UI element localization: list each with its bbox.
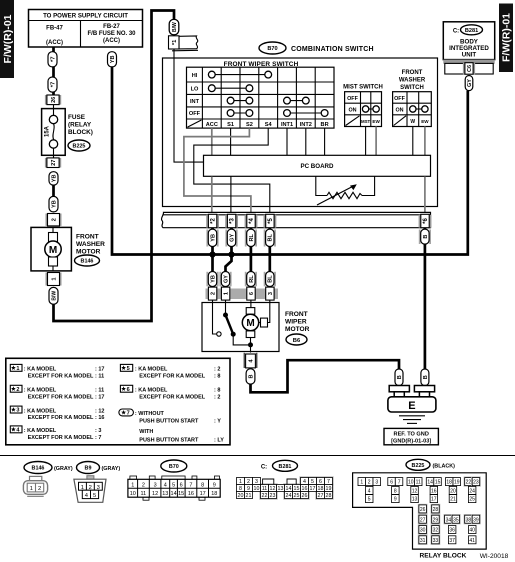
svg-text:2: 2 — [89, 485, 92, 491]
svg-text:YB: YB — [210, 275, 216, 283]
svg-text:7: 7 — [127, 411, 130, 417]
svg-text:: 8: : 8 — [214, 374, 220, 380]
svg-text:9: 9 — [213, 482, 216, 488]
page banner right F/W(R)-01 — [499, 4, 513, 73]
svg-text:INT2: INT2 — [300, 122, 312, 128]
svg-text:11: 11 — [416, 480, 421, 486]
svg-text:10: 10 — [254, 486, 260, 492]
svg-text:EXCEPT FOR KA MODEL: EXCEPT FOR KA MODEL — [28, 394, 94, 400]
connector strip under body integrated unit — [443, 60, 494, 75]
svg-text:25: 25 — [294, 493, 300, 499]
svg-text:21: 21 — [246, 493, 252, 499]
svg-text:40: 40 — [469, 528, 475, 534]
svg-text:FRONT: FRONT — [402, 70, 423, 76]
svg-text:*6: *6 — [423, 218, 429, 224]
svg-text:3: 3 — [375, 480, 378, 486]
svg-text:S1: S1 — [227, 122, 234, 128]
svg-text:16: 16 — [431, 489, 437, 495]
wire INT2 to PC board — [305, 128, 307, 155]
wiper motor internal park switch — [213, 300, 251, 345]
svg-text:EXCEPT FOR KA MODEL: EXCEPT FOR KA MODEL — [28, 415, 94, 421]
svg-text:3: 3 — [268, 292, 274, 295]
note *3 — [10, 406, 104, 421]
svg-text:: WITHOUT: : WITHOUT — [135, 411, 165, 417]
svg-text:W: W — [410, 119, 415, 125]
svg-text:41: 41 — [469, 538, 475, 544]
capsule YB power feed FB-27 — [108, 52, 117, 67]
wire PC board to pin *3 — [230, 177, 232, 215]
capsule BL lower — [266, 272, 274, 287]
svg-text:: 11: : 11 — [95, 388, 104, 394]
variable resistor on PC board — [316, 177, 375, 206]
svg-text:EXCEPT FOR KA MODEL: EXCEPT FOR KA MODEL — [28, 435, 94, 441]
junction dot bus GY tap — [228, 251, 234, 257]
svg-text:EXCEPT FOR KA MODEL: EXCEPT FOR KA MODEL — [28, 374, 94, 380]
svg-text:: 17: : 17 — [95, 394, 104, 400]
svg-text:RELAY BLOCK: RELAY BLOCK — [420, 553, 467, 560]
svg-text:EXCEPT FOR KA MODEL: EXCEPT FOR KA MODEL — [139, 374, 205, 380]
wire B bar pin *6 to ground — [424, 228, 427, 370]
svg-text:27: 27 — [51, 160, 57, 166]
svg-text:5: 5 — [172, 482, 175, 488]
pin *4 — [245, 214, 258, 227]
svg-text:*5: *5 — [268, 218, 274, 224]
svg-text:27: 27 — [318, 493, 324, 499]
box TO POWER SUPPLY CIRCUIT — [29, 10, 143, 48]
svg-text:12: 12 — [412, 489, 418, 495]
svg-text:B: B — [423, 375, 429, 379]
ref to gnd box — [384, 428, 438, 444]
capsule GY lower — [221, 272, 229, 287]
svg-text:11: 11 — [141, 491, 147, 497]
capsule YB lower — [208, 272, 216, 287]
svg-text:B146: B146 — [81, 259, 94, 265]
pin 27 relay block — [45, 155, 61, 167]
svg-text:B/W: B/W — [51, 291, 57, 301]
pin *5 — [264, 214, 277, 227]
svg-text:B281: B281 — [465, 28, 478, 34]
svg-text:COMBINATION SWITCH: COMBINATION SWITCH — [291, 46, 374, 53]
svg-text:2: 2 — [38, 486, 41, 492]
wire W to PC board — [412, 127, 414, 156]
capsule B/W washer motor ground — [49, 287, 58, 304]
svg-text:BLOCK): BLOCK) — [68, 129, 93, 136]
svg-text:F/B FUSE NO. 30: F/B FUSE NO. 30 — [87, 31, 136, 37]
svg-text:B146: B146 — [32, 466, 45, 472]
svg-text:*3: *3 — [230, 218, 236, 224]
contacts INT row S1-S2 and INT1-INT2 — [227, 97, 309, 104]
pin 4 wiper motor — [244, 353, 257, 368]
svg-text:M: M — [246, 318, 254, 329]
wire *1 to PC board — [174, 49, 204, 162]
svg-text:GY: GY — [229, 233, 235, 241]
svg-text:3: 3 — [16, 408, 19, 414]
wire FB-47 feed down to fuse — [52, 47, 55, 112]
svg-text:6: 6 — [180, 482, 183, 488]
wire BL bar to motor pin 3 — [268, 228, 271, 289]
svg-text:E: E — [408, 400, 415, 412]
svg-text:: 2: : 2 — [214, 394, 220, 400]
svg-text:B70: B70 — [267, 46, 277, 52]
svg-text:: 2: : 2 — [214, 367, 220, 373]
svg-text:WIPER: WIPER — [285, 319, 307, 326]
pin 2 washer motor — [46, 214, 62, 226]
svg-text:12: 12 — [152, 491, 158, 497]
wire INT1 to PC board — [286, 128, 288, 155]
svg-text:8: 8 — [394, 489, 397, 495]
svg-text:(GRAY): (GRAY) — [102, 466, 121, 472]
svg-text:GY: GY — [223, 275, 229, 283]
svg-text:6: 6 — [249, 292, 255, 295]
svg-text:13: 13 — [412, 497, 418, 503]
svg-text:: Y: : Y — [214, 418, 221, 424]
svg-text:31: 31 — [420, 538, 426, 544]
svg-text:19: 19 — [326, 486, 332, 492]
svg-text:3: 3 — [97, 485, 100, 491]
svg-text:YB: YB — [210, 234, 216, 242]
connector bar B70 strip — [161, 212, 430, 227]
svg-text:OFF: OFF — [347, 96, 358, 102]
node B281 body integrated unit — [443, 22, 494, 60]
svg-text:17: 17 — [310, 486, 316, 492]
svg-text:: KA MODEL: : KA MODEL — [24, 388, 57, 394]
svg-text:39: 39 — [473, 517, 479, 523]
svg-text:PC BOARD: PC BOARD — [300, 163, 334, 170]
svg-text:WASHER: WASHER — [399, 78, 426, 84]
svg-text:2: 2 — [142, 482, 145, 488]
capsule *7 lower — [48, 77, 57, 92]
svg-text:MOTOR: MOTOR — [285, 326, 310, 333]
svg-text:21: 21 — [450, 497, 456, 503]
svg-text:MIST SWITCH: MIST SWITCH — [343, 85, 383, 91]
wire S2 elbow to pin *4 — [184, 128, 251, 214]
svg-text:WASHER: WASHER — [76, 241, 105, 248]
capsule B ground right — [421, 369, 429, 386]
wire GY capsule from body integrated unit — [465, 76, 473, 91]
svg-text:BL: BL — [268, 233, 274, 241]
svg-text:*4: *4 — [249, 218, 255, 224]
page banner left F/W(R)-01 — [0, 0, 14, 78]
wire mist EW to PC board — [375, 127, 377, 156]
motor connector strip — [206, 289, 279, 300]
front washer switch table — [393, 70, 432, 127]
svg-text:SWITCH: SWITCH — [400, 85, 424, 91]
wire S3 elbow to pin *5 — [194, 128, 270, 214]
svg-text:18: 18 — [446, 480, 452, 486]
svg-text:9: 9 — [394, 497, 397, 503]
pin 6 wiper motor — [247, 287, 255, 300]
svg-text:1: 1 — [224, 292, 230, 295]
svg-text:YB: YB — [110, 55, 116, 63]
svg-text:*7: *7 — [51, 57, 57, 62]
svg-text:1: 1 — [360, 480, 363, 486]
wiper motor M armature — [242, 300, 269, 353]
svg-text:7: 7 — [327, 479, 330, 485]
svg-text:RL: RL — [249, 275, 255, 283]
ribbon continuation flag — [172, 36, 198, 51]
svg-text:: KA MODEL: : KA MODEL — [24, 367, 57, 373]
svg-text:B: B — [397, 375, 403, 379]
svg-text:LO: LO — [191, 87, 199, 93]
svg-text:14: 14 — [286, 486, 292, 492]
svg-text:16: 16 — [302, 486, 308, 492]
svg-text:RL: RL — [249, 233, 255, 241]
svg-text:1: 1 — [81, 485, 84, 491]
note *1 — [10, 364, 104, 379]
svg-text:27: 27 — [420, 517, 426, 523]
svg-text:12: 12 — [270, 486, 276, 492]
svg-text:15: 15 — [178, 491, 184, 497]
mist switch table — [343, 85, 383, 127]
svg-text:: KA MODEL: : KA MODEL — [24, 428, 57, 434]
svg-text:(RELAY: (RELAY — [68, 122, 92, 129]
front washer motor B146 — [31, 227, 105, 271]
svg-text:10: 10 — [130, 491, 136, 497]
svg-text:B: B — [423, 235, 429, 239]
pin 1 wiper motor — [221, 287, 229, 300]
svg-text:S2: S2 — [246, 122, 253, 128]
svg-text:1: 1 — [30, 486, 33, 492]
wire PC board to pin *2 — [211, 177, 213, 215]
svg-text:EW: EW — [372, 119, 380, 124]
svg-text:REF. TO GND: REF. TO GND — [394, 431, 429, 437]
svg-text:PUSH BUTTON START: PUSH BUTTON START — [139, 438, 199, 444]
svg-text:20: 20 — [450, 489, 456, 495]
wire YB bar to motor pin 2 — [211, 228, 214, 289]
capsule B ground left — [395, 369, 403, 386]
svg-text:C:: C: — [261, 464, 267, 470]
svg-text:19: 19 — [454, 480, 460, 486]
svg-text:13: 13 — [278, 486, 284, 492]
svg-text:2: 2 — [211, 292, 217, 295]
connector B9 (GRAY) — [74, 462, 120, 503]
svg-text:14: 14 — [427, 480, 433, 486]
svg-text:BL: BL — [268, 275, 274, 283]
svg-text:ON: ON — [395, 108, 403, 114]
svg-text:WI-20018: WI-20018 — [480, 553, 509, 560]
svg-text:1: 1 — [239, 479, 242, 485]
svg-text:B281: B281 — [279, 464, 292, 470]
svg-text:FB-27: FB-27 — [103, 24, 120, 30]
capsule RL upper — [247, 229, 255, 246]
pin *3 — [225, 214, 238, 227]
svg-text:: KA MODEL: : KA MODEL — [135, 388, 168, 394]
svg-text:PUSH BUTTON START: PUSH BUTTON START — [139, 418, 199, 424]
svg-text:28: 28 — [433, 507, 439, 513]
svg-text:: 17: : 17 — [95, 367, 104, 373]
pin *2 — [206, 214, 219, 227]
svg-text:33: 33 — [433, 538, 439, 544]
pin 2 wiper motor — [208, 287, 216, 300]
svg-text:C:: C: — [453, 28, 459, 34]
wire washer motor ground to combination switch — [54, 11, 175, 322]
svg-text:26: 26 — [302, 493, 308, 499]
svg-text:B225: B225 — [73, 144, 86, 150]
svg-text:2: 2 — [368, 480, 371, 486]
note *7 — [119, 409, 224, 444]
svg-text:20: 20 — [238, 493, 244, 499]
svg-text:36: 36 — [449, 528, 455, 534]
wire wiper motor ground to ground terminal — [251, 360, 400, 392]
svg-text:15: 15 — [294, 486, 300, 492]
svg-text:28: 28 — [326, 493, 332, 499]
capsule B wiper motor ground — [246, 369, 255, 384]
svg-text:8: 8 — [201, 482, 204, 488]
svg-text:4: 4 — [368, 489, 371, 495]
note *6 — [120, 385, 220, 400]
svg-text:2: 2 — [247, 479, 250, 485]
wire washer EW to PC board — [424, 127, 426, 156]
svg-text:B/W: B/W — [172, 22, 178, 32]
svg-text:5: 5 — [127, 366, 130, 372]
svg-text:B6: B6 — [293, 338, 301, 344]
svg-text:2: 2 — [52, 218, 58, 221]
svg-text:(ACC): (ACC) — [103, 38, 120, 44]
svg-text:WITH: WITH — [139, 429, 153, 435]
front wiper switch table — [187, 61, 335, 128]
separator line bottom section — [0, 455, 515, 457]
svg-text:23: 23 — [473, 480, 479, 486]
svg-text:B: B — [248, 374, 254, 378]
svg-text:(GRAY): (GRAY) — [54, 466, 73, 472]
svg-text:18: 18 — [211, 491, 217, 497]
svg-text:EW: EW — [421, 119, 429, 124]
svg-text:B70: B70 — [169, 464, 179, 470]
svg-text:7: 7 — [398, 480, 401, 486]
pc board U1 — [204, 155, 431, 176]
capsule GY upper — [227, 229, 235, 246]
svg-text:26: 26 — [420, 507, 426, 513]
svg-text:6: 6 — [390, 480, 393, 486]
wire GY bar to motor pin 1 with jog — [226, 228, 232, 289]
capsule RL lower — [247, 272, 255, 287]
connector B225 relay block pinout — [353, 459, 509, 560]
svg-text:3: 3 — [255, 479, 258, 485]
ground terminal E — [388, 386, 436, 413]
svg-text:ON: ON — [348, 108, 356, 114]
svg-text:: 8: : 8 — [214, 388, 220, 394]
svg-text:: LY: : LY — [214, 438, 224, 444]
svg-text:*7: *7 — [51, 82, 57, 87]
svg-text:ACC: ACC — [206, 122, 218, 128]
svg-text:F/W(R)-01: F/W(R)-01 — [2, 14, 14, 63]
front wiper motor B6 box — [202, 303, 310, 352]
svg-text:FRONT: FRONT — [76, 234, 99, 241]
svg-text:11: 11 — [262, 486, 268, 492]
contacts LO row ACC to S2 — [208, 85, 252, 92]
svg-text:1: 1 — [16, 366, 19, 372]
svg-text:FB-47: FB-47 — [46, 26, 63, 32]
svg-text:TO POWER SUPPLY CIRCUIT: TO POWER SUPPLY CIRCUIT — [43, 13, 128, 20]
svg-text:38: 38 — [466, 517, 472, 523]
capsule B/W combination switch side — [169, 19, 179, 34]
gray shading beside wire capsules — [206, 230, 431, 287]
svg-text:22: 22 — [466, 480, 472, 486]
svg-text:OFF: OFF — [189, 111, 201, 117]
svg-text:18: 18 — [318, 486, 324, 492]
svg-text:5: 5 — [93, 493, 96, 499]
svg-text:: 3: : 3 — [95, 428, 101, 434]
capsule *7 upper — [48, 52, 57, 67]
svg-text:OFF: OFF — [394, 96, 405, 102]
svg-text:: 16: : 16 — [95, 415, 104, 421]
svg-text:BR: BR — [321, 122, 329, 128]
combination switch B70 box — [163, 42, 438, 207]
wire to washer motor — [52, 185, 55, 196]
pin 26 relay block — [45, 95, 61, 105]
svg-text:17: 17 — [431, 497, 437, 503]
svg-text:(BLACK): (BLACK) — [433, 463, 456, 469]
svg-text:17: 17 — [200, 491, 206, 497]
svg-text:GY: GY — [467, 79, 473, 87]
capsule YB washer motor side — [49, 196, 58, 212]
capsule BL upper — [266, 229, 274, 246]
svg-text:9: 9 — [247, 486, 250, 492]
svg-text:26: 26 — [51, 97, 57, 103]
pin 3 wiper motor — [266, 287, 274, 300]
svg-text:F/W(R)-01: F/W(R)-01 — [501, 13, 513, 62]
svg-text:2: 2 — [16, 387, 19, 393]
svg-text:INT: INT — [190, 99, 200, 105]
wire BR to PC board — [324, 128, 326, 155]
ground symbol hatch — [399, 416, 425, 424]
contacts HI row ACC to S3 — [208, 71, 271, 78]
svg-text:: 11: : 11 — [95, 374, 104, 380]
note *4 — [10, 426, 101, 441]
svg-text:14: 14 — [171, 491, 177, 497]
svg-text:5: 5 — [311, 479, 314, 485]
svg-text:M: M — [49, 245, 57, 256]
notes legend box — [6, 358, 230, 445]
svg-text:: KA MODEL: : KA MODEL — [135, 367, 168, 373]
svg-text:24: 24 — [286, 493, 292, 499]
svg-text:B9: B9 — [85, 466, 92, 472]
svg-text:1: 1 — [131, 482, 134, 488]
svg-text:34: 34 — [446, 517, 452, 523]
fuse 15A (relay block) B225 — [42, 109, 93, 156]
svg-text:7: 7 — [189, 482, 192, 488]
wire RL bar to motor pin 6 — [250, 228, 253, 289]
svg-text:3: 3 — [154, 482, 157, 488]
svg-text:8: 8 — [239, 486, 242, 492]
svg-text:32: 32 — [433, 528, 439, 534]
svg-text:6: 6 — [127, 387, 130, 393]
capsule YB fuse side — [49, 172, 58, 185]
svg-text:25: 25 — [469, 497, 475, 503]
svg-text:B225: B225 — [412, 463, 425, 469]
wire PC board to pin *6 — [424, 177, 426, 215]
svg-text:*1: *1 — [172, 39, 178, 45]
svg-text:37: 37 — [449, 538, 455, 544]
svg-text:23: 23 — [270, 493, 276, 499]
svg-text:FUSE: FUSE — [68, 114, 86, 121]
svg-text:FRONT: FRONT — [285, 311, 308, 318]
svg-text:[GND(R)-01-03]: [GND(R)-01-03] — [391, 438, 431, 444]
svg-text:: KA MODEL: : KA MODEL — [24, 408, 57, 414]
svg-text:(ACC): (ACC) — [46, 40, 63, 46]
svg-text:24: 24 — [469, 489, 475, 495]
svg-text:5: 5 — [368, 497, 371, 503]
pin *6 — [419, 214, 432, 227]
svg-text:YB: YB — [52, 175, 58, 183]
connector B146 (GRAY) — [23, 462, 72, 497]
connector B70 pinout — [128, 460, 220, 500]
svg-text:4: 4 — [164, 482, 167, 488]
svg-text:6: 6 — [319, 479, 322, 485]
capsule B right — [421, 229, 429, 244]
svg-text:YB: YB — [52, 200, 58, 208]
svg-text:10: 10 — [408, 480, 414, 486]
